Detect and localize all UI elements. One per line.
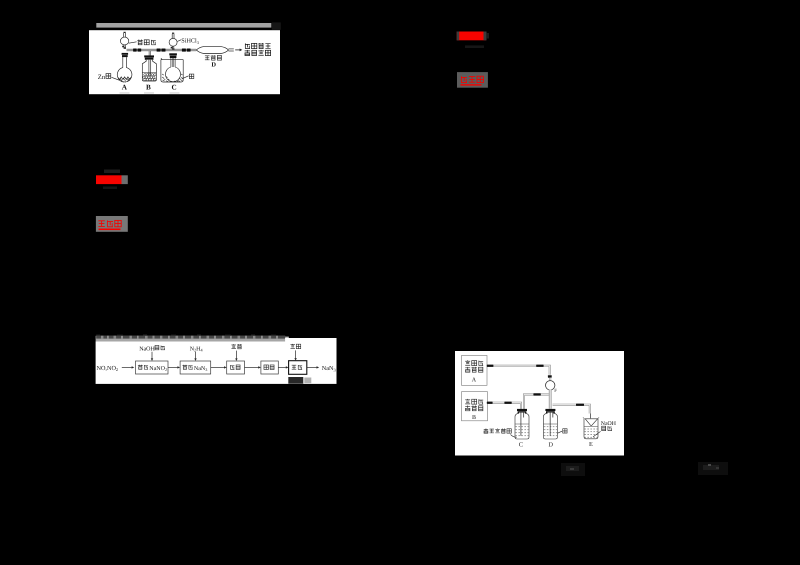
arrow 6	[307, 366, 319, 368]
DIAGRAM1	[98, 32, 271, 94]
box synth NaN3	[180, 361, 211, 374]
svg-text:A: A	[472, 377, 477, 383]
flask in bath	[166, 53, 181, 81]
label ether	[290, 344, 300, 349]
tube D to E	[553, 405, 591, 419]
svg-text:NO,NO2: NO,NO2	[97, 365, 119, 372]
rubber joint on C-D tube	[533, 393, 540, 395]
water label for D	[558, 429, 567, 433]
label 石英管 D	[205, 55, 222, 60]
water hatch in bath	[162, 74, 183, 82]
quartz tube D	[196, 47, 233, 54]
arrow 2	[168, 366, 180, 368]
arrow 5	[278, 366, 288, 368]
water bath beaker C	[161, 58, 183, 82]
box crystallize	[227, 361, 245, 374]
dropping funnel on C	[169, 33, 177, 50]
label Zn粒	[98, 74, 120, 81]
arrow down into box3	[235, 351, 237, 361]
product NaN3	[322, 365, 337, 372]
white panel 1 (apparatus A-B-C-D)	[89, 30, 280, 94]
label NaOH solution	[139, 345, 165, 352]
svg-text:D: D	[548, 442, 553, 449]
arrow 4	[245, 366, 261, 368]
rubber joint A-B	[133, 49, 141, 52]
arrow down into box5	[294, 350, 296, 360]
tube F down into D	[549, 390, 552, 409]
arrow down into box1	[151, 352, 153, 361]
gray cropped heading strip	[96, 336, 289, 342]
label B	[146, 83, 151, 91]
generator box B	[462, 392, 488, 421]
tube C up to D	[524, 395, 549, 410]
rubber joints on A tube	[487, 365, 544, 367]
white panel 3	[455, 351, 624, 456]
svg-text:B: B	[472, 415, 476, 421]
label 尾气处理 装置略去	[245, 43, 271, 56]
svg-text:B: B	[146, 83, 151, 91]
DIAGRAM2	[97, 344, 337, 384]
box filter	[261, 361, 278, 374]
dark block at right end of bar	[272, 22, 281, 29]
red label text right	[461, 76, 483, 82]
label ethanol	[231, 344, 242, 349]
saturated brine label	[484, 428, 517, 437]
svg-text:C: C	[519, 442, 523, 449]
faint ghosts below panel 3	[561, 463, 585, 476]
analysis gray box right with red text	[457, 72, 488, 88]
generator box A	[462, 356, 488, 386]
tube B to C	[488, 403, 522, 409]
rubber joint B-C	[157, 49, 166, 52]
gray redaction block	[304, 378, 311, 384]
label A	[122, 83, 128, 91]
branch tube into B	[149, 51, 151, 56]
answer red bar left	[96, 175, 128, 184]
bottle D	[543, 409, 557, 449]
arrow 3	[211, 366, 227, 368]
dark redaction block	[288, 377, 303, 384]
rubber joint C-D	[182, 49, 191, 52]
ghost below	[103, 187, 117, 190]
dropping funnel on A	[120, 32, 128, 49]
ghost below right bar	[465, 45, 484, 48]
arrow 1	[122, 366, 135, 368]
gas washing bottle B	[142, 55, 156, 81]
DIAGRAM3	[462, 356, 617, 449]
cropped heading text chunks	[96, 335, 289, 342]
analysis gray box left with red text	[96, 216, 128, 232]
tube A to F	[487, 366, 550, 375]
ball F	[546, 378, 558, 395]
svg-text:D: D	[211, 61, 216, 68]
ghost bracket	[487, 33, 489, 39]
rubber joint on D-E tube	[576, 404, 584, 406]
svg-text:N2H4: N2H4	[190, 346, 204, 352]
label 稀硫酸	[129, 40, 156, 45]
svg-text:NaN3: NaN3	[194, 366, 207, 372]
bottle C	[515, 409, 529, 449]
label C	[172, 83, 177, 91]
NaOH solution label	[593, 421, 617, 437]
box synth NaNO2	[136, 361, 169, 374]
svg-text:E: E	[589, 441, 593, 448]
rubber above ball F	[548, 375, 552, 378]
svg-text:NaOH: NaOH	[139, 346, 155, 352]
svg-text:F: F	[554, 388, 557, 394]
white panel flowchart	[96, 338, 337, 384]
main tube A to D	[127, 49, 197, 51]
arrow down into box2	[194, 352, 196, 361]
gray heading bar above box 1	[96, 23, 271, 28]
answer red bar right	[457, 32, 487, 41]
rubber joints on B tube	[487, 402, 512, 404]
svg-text:NaNO2: NaNO2	[149, 366, 167, 372]
red label text left	[98, 220, 121, 226]
flask A	[117, 53, 132, 82]
svg-text:SiHCl3: SiHCl3	[181, 38, 199, 45]
box wash	[289, 361, 307, 375]
label 水 (bath)	[182, 74, 194, 79]
beaker E	[583, 417, 599, 448]
label N2H4	[190, 346, 204, 352]
svg-text:Zn: Zn	[98, 74, 106, 81]
ghost text above answer bar	[104, 170, 120, 174]
svg-text:A: A	[122, 83, 128, 91]
feed text NO,NO2	[97, 365, 119, 372]
svg-text:C: C	[172, 83, 177, 91]
label SiHCl3	[177, 38, 199, 45]
arrow to tail gas	[235, 49, 242, 52]
